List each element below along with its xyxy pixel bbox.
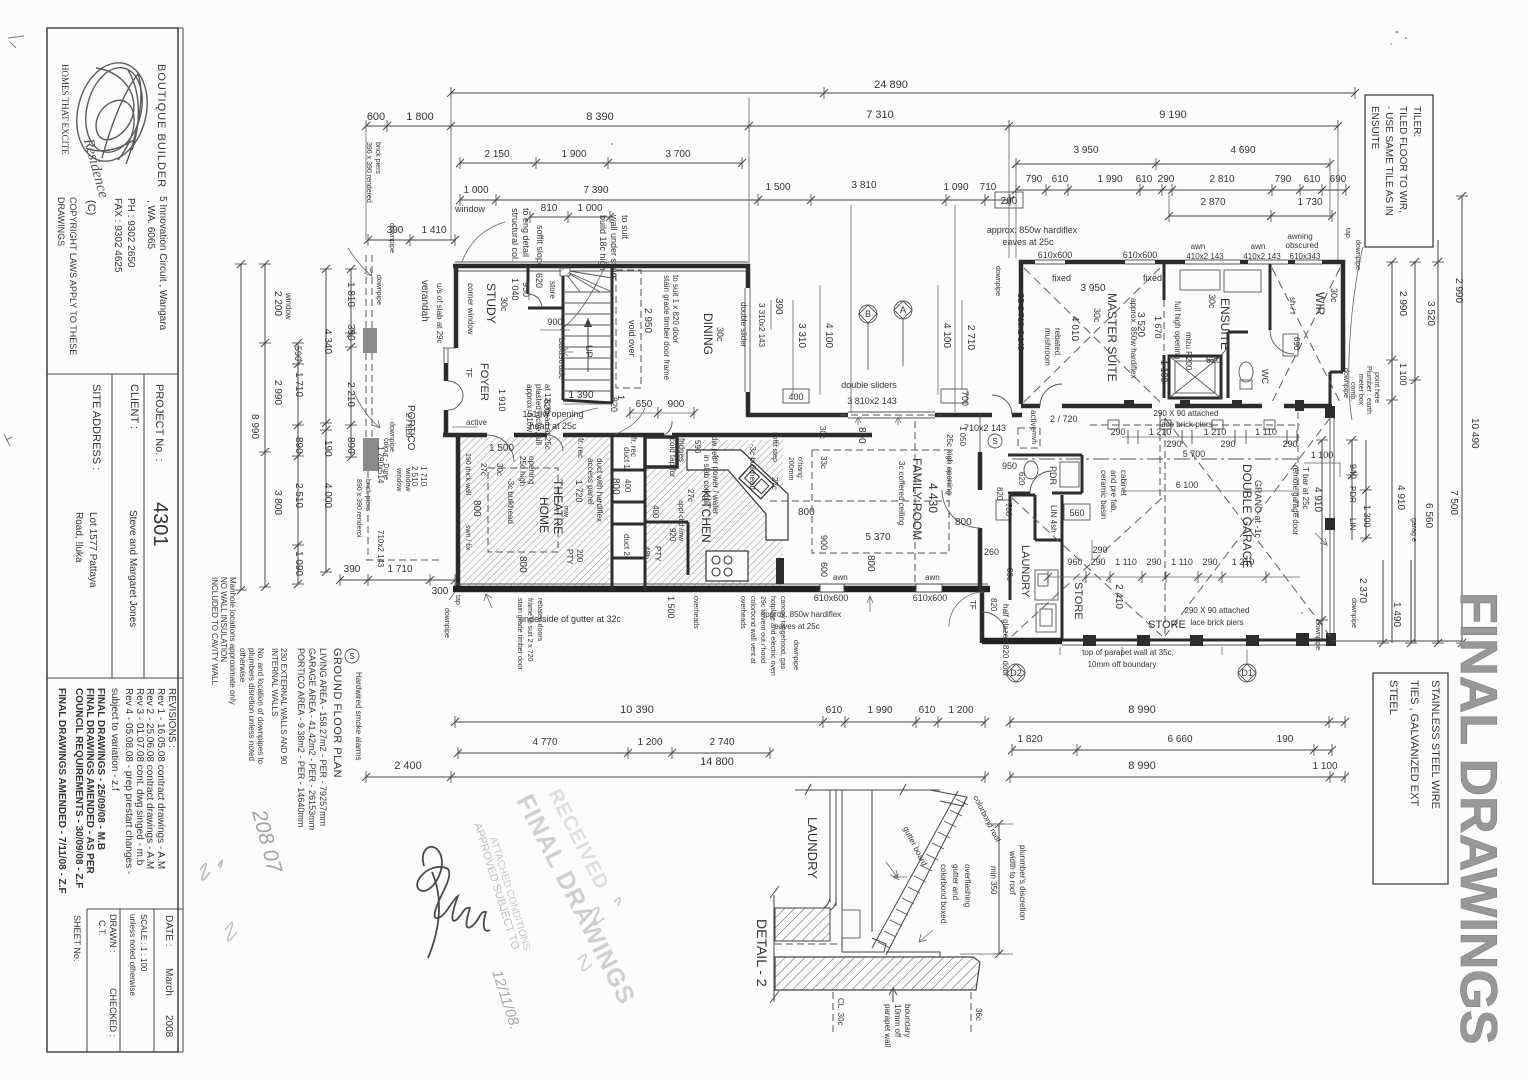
svg-text:3 310x2 143: 3 310x2 143 bbox=[757, 303, 766, 348]
left wall edge bbox=[773, 895, 775, 1002]
svg-text:800: 800 bbox=[517, 556, 528, 573]
svg-text:unless noted otherwise: unless noted otherwise bbox=[128, 914, 137, 996]
svg-text:30c: 30c bbox=[499, 297, 509, 312]
hatched floor: home theatre + kitchen bbox=[458, 437, 610, 590]
svg-text:290: 290 bbox=[1146, 557, 1161, 567]
svg-text:S: S bbox=[349, 652, 354, 661]
svg-text:1 040: 1 040 bbox=[510, 278, 520, 301]
svg-text:10mm off: 10mm off bbox=[893, 1004, 902, 1038]
svg-text:garag e: garag e bbox=[1410, 518, 1417, 542]
svg-text:rebated doors: rebated doors bbox=[536, 598, 543, 642]
svg-text:10mm off boundary: 10mm off boundary bbox=[1088, 660, 1157, 669]
svg-text:remote garage door: remote garage door bbox=[1291, 465, 1300, 536]
svg-text:33c: 33c bbox=[819, 456, 828, 469]
entry door arcs bbox=[448, 381, 463, 396]
svg-text:eaves at 25c: eaves at 25c bbox=[1002, 237, 1054, 247]
svg-text:6 560: 6 560 bbox=[1423, 503, 1434, 528]
svg-text:MASTER SUITE: MASTER SUITE bbox=[1105, 293, 1119, 382]
left dim chain B bbox=[264, 264, 266, 587]
svg-text:960: 960 bbox=[1067, 557, 1082, 567]
left dim chain C bbox=[297, 343, 299, 584]
svg-text:half glazed 820 door: half glazed 820 door bbox=[1001, 604, 1010, 677]
svg-text:fridges: fridges bbox=[677, 438, 686, 462]
svg-text:awn: awn bbox=[833, 573, 848, 582]
svg-text:2 950: 2 950 bbox=[642, 308, 653, 333]
kitchen 190 wall bbox=[776, 558, 784, 584]
svg-text:208 07: 208 07 bbox=[247, 806, 286, 876]
svg-text:WC: WC bbox=[1260, 369, 1270, 384]
svg-text:620: 620 bbox=[1206, 355, 1221, 365]
svg-text:950: 950 bbox=[1002, 461, 1017, 471]
svg-text:D2: D2 bbox=[1010, 668, 1022, 678]
svg-text:PTY: PTY bbox=[565, 549, 574, 565]
svg-text:SD 2 710x2 143: SD 2 710x2 143 bbox=[1016, 293, 1025, 351]
svg-text:fixed: fixed bbox=[1143, 273, 1162, 283]
svg-text:UP: UP bbox=[584, 345, 594, 358]
svg-text:800: 800 bbox=[471, 500, 482, 517]
svg-text:27c: 27c bbox=[770, 477, 779, 490]
svg-text:downpipe: downpipe bbox=[1342, 368, 1349, 398]
svg-text:fr. rec: fr. rec bbox=[576, 438, 585, 458]
svg-text:4 690: 4 690 bbox=[1230, 145, 1255, 156]
svg-text:Rev 4 - 05.08.08 - prep presta: Rev 4 - 05.08.08 - prep prestart changes… bbox=[123, 688, 134, 874]
svg-text:2 810: 2 810 bbox=[1209, 174, 1234, 185]
svg-text:48h: 48h bbox=[642, 546, 651, 559]
svg-text:approx. 850w hardiflex: approx. 850w hardiflex bbox=[761, 610, 842, 619]
svg-text:STUDY: STUDY bbox=[484, 283, 498, 324]
svg-text:plasted niche, sill: plasted niche, sill bbox=[534, 384, 543, 445]
svg-text:30c: 30c bbox=[1092, 308, 1102, 323]
fifth row right 2870/1730 bbox=[1169, 215, 1332, 217]
left wall study bbox=[454, 264, 459, 348]
svg-text:GRANO at -1c: GRANO at -1c bbox=[1253, 480, 1263, 539]
svg-text:4 340: 4 340 bbox=[322, 329, 333, 354]
svg-text:3 950: 3 950 bbox=[1073, 145, 1098, 156]
svg-text:No. and location of downpipes: No. and location of downpipes to bbox=[256, 648, 265, 765]
svg-text:CLIENT :: CLIENT : bbox=[128, 384, 140, 429]
svg-text:4 430: 4 430 bbox=[926, 483, 940, 513]
svg-text:otherwise: otherwise bbox=[238, 648, 247, 683]
svg-text:window: window bbox=[395, 467, 402, 492]
svg-text:4 770: 4 770 bbox=[532, 737, 557, 748]
svg-text:, WA. 6065: , WA. 6065 bbox=[145, 200, 156, 250]
svg-text:tap: tap bbox=[454, 595, 461, 605]
svg-text:200mm: 200mm bbox=[787, 457, 794, 481]
foyer left wall with entry bbox=[444, 363, 449, 381]
row2 right bbox=[1012, 749, 1332, 751]
svg-text:CL. 30c: CL. 30c bbox=[836, 998, 845, 1026]
svg-text:7 310: 7 310 bbox=[866, 109, 894, 121]
logo box divider bbox=[47, 373, 178, 375]
svg-text:meter box: meter box bbox=[1357, 374, 1364, 406]
svg-text:2 200: 2 200 bbox=[272, 291, 283, 316]
svg-text:PTY: PTY bbox=[653, 546, 662, 562]
svg-text:COPYRIGHT LAWS APPLY TO THESE: COPYRIGHT LAWS APPLY TO THESE bbox=[68, 197, 78, 355]
svg-text:2 150: 2 150 bbox=[484, 149, 509, 160]
svg-text:(C): (C) bbox=[85, 200, 97, 215]
svg-text:opening: opening bbox=[527, 456, 536, 484]
svg-text:u/s of slab at 29c: u/s of slab at 29c bbox=[435, 283, 444, 343]
svg-text:DRAWINGS: DRAWINGS bbox=[56, 197, 66, 246]
svg-text:390 x 390 rendered: 390 x 390 rendered bbox=[365, 142, 372, 203]
svg-text:NO WALL INSULATION: NO WALL INSULATION bbox=[219, 577, 228, 662]
svg-text:10 390: 10 390 bbox=[620, 704, 654, 716]
svg-text:access panel: access panel bbox=[586, 458, 595, 505]
overall 24890 dimension bbox=[451, 92, 1355, 94]
svg-text:300: 300 bbox=[432, 586, 449, 597]
projection lines bbox=[450, 98, 452, 240]
third dim row right 3950/4690 bbox=[1016, 163, 1330, 165]
RIGHTDIMS bbox=[1316, 192, 1480, 647]
svg-text:5 700: 5 700 bbox=[1183, 449, 1206, 459]
svg-text:1 110: 1 110 bbox=[1255, 427, 1277, 437]
row3 right bbox=[1010, 776, 1345, 778]
svg-text:1 490: 1 490 bbox=[1391, 602, 1402, 627]
svg-text:30c: 30c bbox=[818, 426, 827, 439]
svg-text:plunmber's discretion: plunmber's discretion bbox=[1018, 845, 1027, 920]
svg-text:cold tap for: cold tap for bbox=[668, 438, 677, 478]
verandah pier grey bbox=[363, 328, 377, 353]
svg-text:stain grade timber door frame: stain grade timber door frame bbox=[662, 275, 671, 380]
svg-text:canopy rangehood, gas: canopy rangehood, gas bbox=[779, 596, 786, 670]
detail markers D1 D2 bbox=[1007, 664, 1256, 682]
svg-text:290: 290 bbox=[1158, 174, 1175, 185]
row3 left bbox=[366, 776, 985, 778]
row1 right bbox=[1010, 721, 1345, 723]
pantry column bbox=[611, 435, 614, 590]
svg-text:corner window: corner window bbox=[466, 283, 475, 335]
svg-text:T bar at 25c: T bar at 25c bbox=[1301, 467, 1310, 510]
svg-text:WIR: WIR bbox=[1313, 292, 1327, 316]
svg-text:1 720: 1 720 bbox=[574, 480, 584, 503]
svg-text:1 900: 1 900 bbox=[561, 149, 586, 160]
svg-text:LIN 4sh: LIN 4sh bbox=[1049, 505, 1058, 533]
svg-text:7 390: 7 390 bbox=[583, 185, 608, 196]
svg-text:610: 610 bbox=[1136, 174, 1153, 185]
svg-text:comb.: comb. bbox=[1349, 382, 1356, 401]
svg-text:410x2 143: 410x2 143 bbox=[1186, 252, 1224, 261]
TOPDIMS bbox=[362, 79, 1433, 420]
svg-text:710x2 143: 710x2 143 bbox=[964, 423, 1006, 433]
svg-text:690: 690 bbox=[1292, 337, 1301, 351]
svg-text:ceramic basin: ceramic basin bbox=[1099, 470, 1108, 519]
revisions box bbox=[47, 677, 183, 679]
svg-text:610x600: 610x600 bbox=[1038, 250, 1073, 260]
logo script bbox=[67, 55, 157, 168]
svg-text:structural col.: structural col. bbox=[510, 208, 520, 262]
svg-text:2 510: 2 510 bbox=[410, 466, 419, 487]
svg-text:in slab conduit: in slab conduit bbox=[702, 455, 711, 507]
PLAN bbox=[404, 262, 1022, 676]
svg-text:and pre fab.: and pre fab. bbox=[1109, 470, 1118, 513]
svg-text:1 100: 1 100 bbox=[1312, 761, 1337, 772]
svg-text:COUNCIL REQUIREMENTS - 30/09/0: COUNCIL REQUIREMENTS - 30/09/08 - Z.F bbox=[73, 688, 84, 888]
svg-text:colorbond wall vent at: colorbond wall vent at bbox=[749, 596, 756, 664]
svg-text:4 910: 4 910 bbox=[1312, 487, 1323, 512]
svg-text:downpipe: downpipe bbox=[1354, 240, 1361, 270]
store bottom wall with piers bbox=[1062, 639, 1335, 642]
svg-text:800: 800 bbox=[865, 555, 876, 572]
svg-text:290: 290 bbox=[1110, 427, 1125, 437]
svg-text:1 390: 1 390 bbox=[568, 390, 593, 401]
kitchen island bench bbox=[687, 450, 788, 540]
svg-text:1 730: 1 730 bbox=[1297, 197, 1322, 208]
svg-text:obscured: obscured bbox=[1286, 241, 1319, 250]
svg-text:Road, !luka: Road, !luka bbox=[73, 512, 84, 563]
svg-text:1 710: 1 710 bbox=[387, 564, 412, 575]
svg-text:D1: D1 bbox=[1241, 668, 1253, 678]
svg-text:to suit: to suit bbox=[620, 215, 630, 240]
svg-text:PH : 9302 2650: PH : 9302 2650 bbox=[125, 198, 136, 268]
smoke alarm bbox=[988, 434, 1002, 448]
row2 left bbox=[458, 752, 770, 754]
svg-text:4 010: 4 010 bbox=[1069, 316, 1080, 341]
svg-text:1 410: 1 410 bbox=[421, 225, 446, 236]
svg-text:29c to vent out r'hood: 29c to vent out r'hood bbox=[759, 596, 766, 663]
svg-text:colorbond boxed: colorbond boxed bbox=[939, 864, 948, 923]
project row bbox=[143, 374, 145, 678]
theatre labels bbox=[488, 468, 558, 552]
svg-text:8 990: 8 990 bbox=[249, 414, 260, 439]
door arcs off hall bbox=[487, 435, 514, 462]
left dim chain D bbox=[325, 269, 327, 572]
svg-text:8 990: 8 990 bbox=[1128, 760, 1156, 772]
svg-text:LIN: LIN bbox=[1348, 518, 1357, 531]
svg-text:290: 290 bbox=[1220, 439, 1235, 449]
svg-text:LAUNDRY: LAUNDRY bbox=[805, 817, 820, 879]
svg-text:brick piers: brick piers bbox=[374, 142, 381, 174]
svg-text:o'hang: o'hang bbox=[796, 457, 803, 478]
svg-text:390: 390 bbox=[344, 564, 361, 575]
svg-text:900: 900 bbox=[668, 399, 685, 410]
svg-text:subject to variation - z.f: subject to variation - z.f bbox=[109, 688, 120, 791]
svg-text:710: 710 bbox=[980, 182, 997, 193]
left dim chain E bbox=[350, 269, 352, 457]
svg-text:gutter and: gutter and bbox=[951, 864, 960, 900]
faint scribbles left bbox=[200, 860, 223, 880]
svg-text:790: 790 bbox=[1275, 174, 1292, 185]
svg-text:400: 400 bbox=[623, 479, 632, 493]
slider opening bbox=[848, 411, 935, 413]
svg-text:TF: TF bbox=[464, 368, 473, 378]
svg-text:27c: 27c bbox=[479, 463, 488, 476]
svg-text:underside of gutter at 32c: underside of gutter at 32c bbox=[519, 614, 622, 624]
BOTTOMDIMS bbox=[362, 704, 1349, 783]
shower bbox=[1169, 356, 1221, 398]
200 boxed bbox=[995, 192, 1023, 208]
svg-text:point here: point here bbox=[1373, 372, 1380, 403]
svg-text:PORTICO AREA - 9.38m2 - PER -: PORTICO AREA - 9.38m2 - PER - 14640mm bbox=[296, 648, 306, 827]
svg-text:downpipe: downpipe bbox=[792, 640, 799, 670]
gutter bbox=[842, 938, 886, 952]
void dashed bbox=[616, 270, 641, 388]
svg-text:820: 820 bbox=[989, 598, 998, 612]
title block outer border bbox=[47, 28, 178, 1052]
svg-text:eaves at 25c: eaves at 25c bbox=[774, 622, 819, 631]
svg-text:overheads: overheads bbox=[692, 596, 699, 629]
svg-text:DATE :: DATE : bbox=[163, 915, 174, 946]
svg-text:1 500: 1 500 bbox=[489, 443, 514, 454]
svg-text:FOYER: FOYER bbox=[478, 363, 490, 401]
svg-text:1 990: 1 990 bbox=[867, 705, 892, 716]
svg-text:Manhole locations approximate: Manhole locations approximate only bbox=[228, 577, 237, 705]
svg-text:4 100: 4 100 bbox=[941, 323, 952, 348]
svg-text:INCLUDED TO CAVITY WALL: INCLUDED TO CAVITY WALL bbox=[210, 577, 219, 686]
svg-text:2 510: 2 510 bbox=[293, 483, 304, 508]
svg-text:4 100: 4 100 bbox=[823, 323, 834, 348]
svg-text:290: 290 bbox=[1282, 439, 1297, 449]
svg-text:260: 260 bbox=[984, 547, 999, 557]
svg-text:CHECKED :: CHECKED : bbox=[108, 988, 118, 1037]
svg-text:top of parapet wall at 35c,: top of parapet wall at 35c, bbox=[1082, 648, 1174, 657]
svg-text:sh / r: sh / r bbox=[1288, 297, 1297, 315]
svg-text:plumbers disretion unless note: plumbers disretion unless noted bbox=[247, 648, 256, 761]
stainless steel note box bbox=[1373, 673, 1448, 884]
svg-text:650: 650 bbox=[636, 399, 653, 410]
svg-text:BOUTIQUE BUILDER: BOUTIQUE BUILDER bbox=[155, 64, 167, 188]
svg-text:lace brick piers: lace brick piers bbox=[1190, 618, 1243, 627]
svg-text:800: 800 bbox=[955, 517, 972, 528]
svg-text:2 870: 2 870 bbox=[1200, 197, 1225, 208]
svg-text:8 390: 8 390 bbox=[586, 111, 614, 123]
svg-text:GROUND FLOOR PLAN: GROUND FLOOR PLAN bbox=[331, 648, 343, 778]
svg-text:25c high: 25c high bbox=[518, 456, 527, 486]
svg-text:SITE ADDRESS :: SITE ADDRESS : bbox=[90, 384, 102, 470]
svg-text:PDR: PDR bbox=[1048, 466, 1058, 486]
svg-text:fr. rec: fr. rec bbox=[629, 437, 638, 457]
svg-text:590: 590 bbox=[293, 346, 303, 361]
svg-text:boundary: boundary bbox=[903, 1004, 912, 1037]
svg-text:620: 620 bbox=[534, 273, 544, 288]
svg-text:tap: tap bbox=[1344, 228, 1351, 238]
svg-text:Hardwired smoke alarms: Hardwired smoke alarms bbox=[354, 672, 363, 760]
svg-text:stain grade timber door: stain grade timber door bbox=[516, 598, 523, 671]
svg-text:B: B bbox=[865, 309, 871, 319]
svg-text:4 910: 4 910 bbox=[1395, 485, 1406, 510]
svg-text:active: active bbox=[466, 418, 487, 427]
svg-text:1 670: 1 670 bbox=[1153, 316, 1163, 339]
svg-text:GARAGE AREA - 41.42m2 - PER -: GARAGE AREA - 41.42m2 - PER - 26153mm bbox=[307, 648, 317, 830]
svg-text:950: 950 bbox=[521, 282, 531, 297]
svg-text:STEEL: STEEL bbox=[1387, 680, 1399, 715]
svg-text:410x2 143: 410x2 143 bbox=[1243, 252, 1281, 261]
TITLEBLOCK bbox=[47, 28, 183, 1052]
svg-text:1 210: 1 210 bbox=[1232, 557, 1255, 567]
svg-text:800: 800 bbox=[856, 427, 867, 444]
stairs bbox=[562, 268, 565, 400]
svg-text:LIVING AREA - 158.27m2 - PER -: LIVING AREA - 158.27m2 - PER - 79257mm bbox=[318, 648, 328, 826]
svg-text:PROJECT No. :: PROJECT No. : bbox=[153, 384, 165, 461]
svg-text:560: 560 bbox=[1069, 508, 1084, 518]
svg-text:awn: awn bbox=[1191, 242, 1206, 251]
svg-text:ENSUITE: ENSUITE bbox=[1218, 298, 1232, 350]
svg-text:Rev 1 - 16.05.08 contract draw: Rev 1 - 16.05.08 contract drawings - A.M bbox=[155, 688, 166, 869]
svg-text:610x600: 610x600 bbox=[814, 593, 849, 603]
svg-text:610x600: 610x600 bbox=[1123, 250, 1158, 260]
roof slope bbox=[872, 791, 958, 948]
svg-text:6 100: 6 100 bbox=[1176, 480, 1199, 490]
bottom slab bbox=[775, 957, 980, 990]
signature bbox=[417, 847, 490, 931]
svg-text:March: March bbox=[163, 968, 174, 996]
svg-text:INTERNAL WALLS: INTERNAL WALLS bbox=[270, 648, 279, 716]
svg-text:parapet wall: parapet wall bbox=[883, 1004, 892, 1047]
store room bbox=[527, 266, 530, 294]
390/1410 row bbox=[368, 239, 455, 241]
svg-text:1 200: 1 200 bbox=[948, 705, 973, 716]
svg-text:1 500: 1 500 bbox=[666, 596, 676, 619]
top plate line bbox=[795, 789, 940, 791]
svg-text:C.T.: C.T. bbox=[97, 920, 107, 936]
svg-text:mushroom: mushroom bbox=[1043, 328, 1052, 366]
svg-text:14 800: 14 800 bbox=[700, 756, 734, 768]
svg-text:1 210: 1 210 bbox=[1204, 427, 1227, 437]
svg-text:DINING: DINING bbox=[701, 313, 715, 355]
ensuite partition bbox=[1163, 264, 1166, 300]
svg-text:5 Innovation Circuit , Wangara: 5 Innovation Circuit , Wangara bbox=[157, 196, 168, 331]
svg-text:2 210: 2 210 bbox=[345, 382, 356, 407]
svg-text:820: 820 bbox=[995, 487, 1004, 501]
svg-text:TILED FLOOR TO WIR,: TILED FLOOR TO WIR, bbox=[1397, 106, 1408, 213]
svg-text:FINAL DRAWINGS AMENDED - AS PE: FINAL DRAWINGS AMENDED - AS PER bbox=[84, 688, 95, 875]
svg-text:290 X 90 attached: 290 X 90 attached bbox=[1185, 606, 1250, 615]
svg-text:200: 200 bbox=[575, 549, 584, 563]
scan corner marks bbox=[4, 36, 24, 446]
garage pier dashed line bbox=[1090, 424, 1300, 426]
DETAIL2 bbox=[754, 784, 1027, 1047]
svg-text:600: 600 bbox=[367, 111, 385, 123]
left arrows to piers bbox=[355, 395, 380, 428]
svg-text:2 990: 2 990 bbox=[1397, 291, 1408, 316]
810/1000 row bbox=[530, 216, 610, 218]
master suite dashed X bbox=[1024, 268, 1160, 402]
svg-text:1 800: 1 800 bbox=[406, 111, 434, 123]
svg-text:610: 610 bbox=[1052, 174, 1069, 185]
svg-text:2 990: 2 990 bbox=[272, 380, 283, 405]
svg-text:overheads: overheads bbox=[739, 596, 746, 629]
svg-text:window: window bbox=[284, 292, 293, 320]
leader curve bbox=[560, 262, 607, 330]
svg-text:2008: 2008 bbox=[163, 1015, 174, 1038]
svg-text:duct 2: duct 2 bbox=[622, 534, 631, 556]
svg-text:downpipe: downpipe bbox=[375, 275, 382, 305]
svg-text:Plumber : earth: Plumber : earth bbox=[1365, 366, 1372, 414]
svg-text:3 950: 3 950 bbox=[1080, 283, 1105, 294]
svg-text:STAINLESS STEEL WIRE: STAINLESS STEEL WIRE bbox=[1429, 680, 1441, 809]
svg-text:1 820: 1 820 bbox=[1017, 734, 1042, 745]
svg-text:2 740: 2 740 bbox=[709, 737, 734, 748]
garage dashed X bbox=[1165, 418, 1330, 636]
svg-text:12/11/08.: 12/11/08. bbox=[488, 968, 523, 1032]
svg-text:store: store bbox=[548, 281, 557, 299]
vanity bbox=[1180, 270, 1220, 290]
dining east wall with window bbox=[746, 264, 751, 288]
svg-text:overflashing: overflashing bbox=[963, 864, 972, 907]
svg-text:- USE SAME TILE AS IN: - USE SAME TILE AS IN bbox=[1383, 106, 1394, 216]
svg-text:30c: 30c bbox=[1207, 294, 1217, 309]
wing bottom wall bbox=[1021, 404, 1040, 409]
svg-text:awn: awn bbox=[1251, 242, 1266, 251]
landing bbox=[563, 400, 612, 403]
laundry bbox=[980, 589, 985, 643]
svg-text:400: 400 bbox=[788, 392, 803, 402]
svg-text:5 370: 5 370 bbox=[865, 532, 890, 543]
svg-text:DETAIL - 2: DETAIL - 2 bbox=[754, 919, 770, 987]
svg-text:610x343: 610x343 bbox=[1290, 252, 1321, 261]
svg-text:downpipe: downpipe bbox=[443, 608, 450, 638]
svg-text:2 / 720: 2 / 720 bbox=[1050, 414, 1078, 424]
svg-text:Lot 1577 Pattaya: Lot 1577 Pattaya bbox=[87, 512, 98, 588]
